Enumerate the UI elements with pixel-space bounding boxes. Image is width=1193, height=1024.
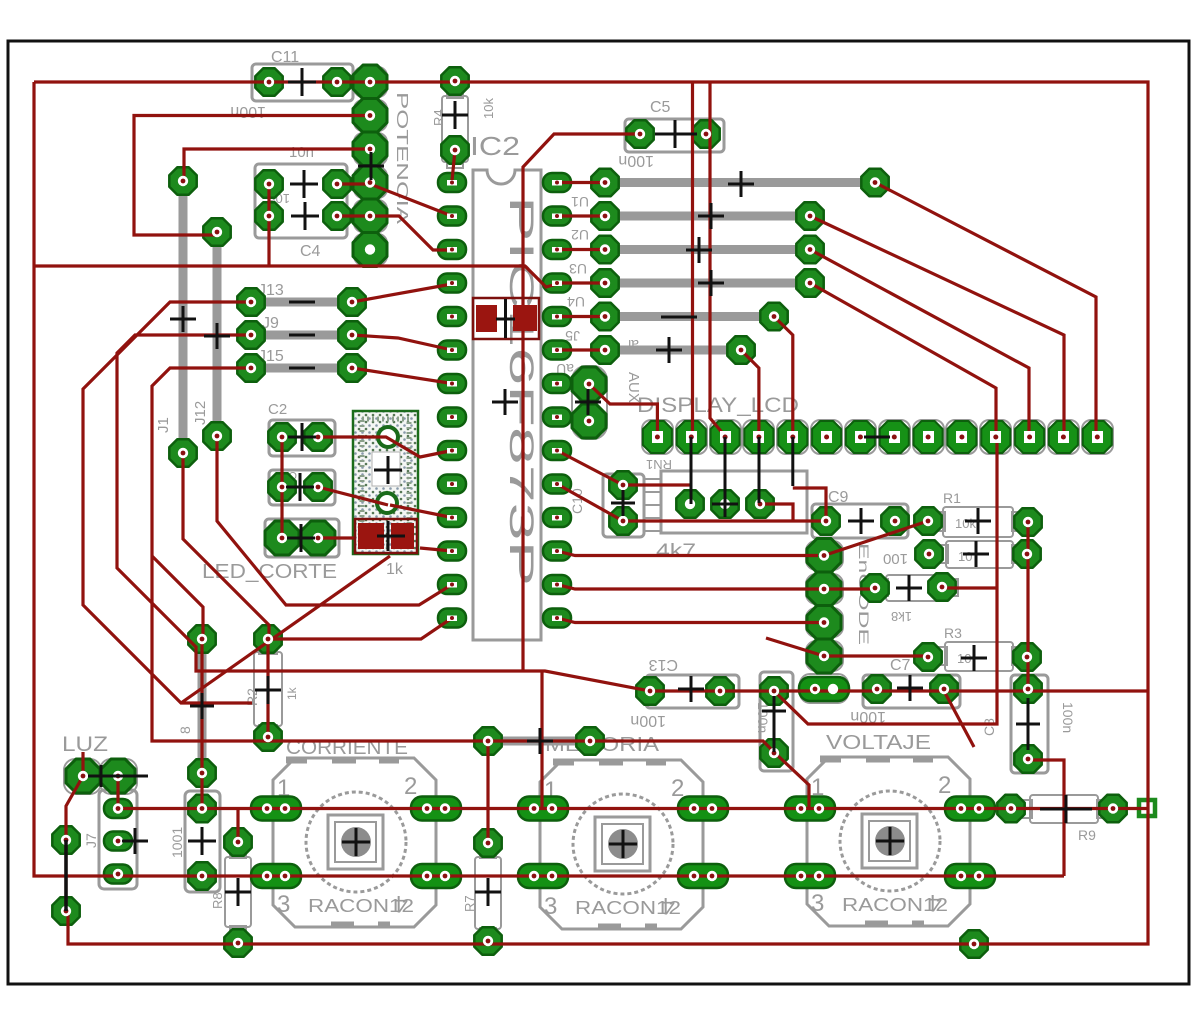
svg-text:U1: U1 <box>571 194 589 210</box>
resistor R5 pads <box>915 540 942 567</box>
svg-text:10n: 10n <box>289 144 314 161</box>
connector J10 outline <box>185 791 220 892</box>
capacitor C5 outline <box>625 119 724 152</box>
resistor R8 outline <box>225 857 251 927</box>
svg-text:U4: U4 <box>567 294 585 310</box>
wire relay coil row <box>118 807 1147 810</box>
wire J9 left bundle to C13 row <box>117 335 1148 691</box>
wire C3 to T1 <box>318 487 388 505</box>
wire bus U4 to LCD pad11b <box>810 283 996 437</box>
resistor R2 outline <box>254 652 282 726</box>
svg-text:10: 10 <box>958 549 972 564</box>
svg-text:C7: C7 <box>890 657 911 674</box>
resistor R2 pads <box>254 625 281 652</box>
capacitor C11 outline <box>252 64 353 101</box>
wire outer loop top/right/bottom <box>34 82 1148 944</box>
J10 origin <box>188 827 216 855</box>
wire branch to J8 <box>152 556 203 639</box>
svg-text:2: 2 <box>404 773 417 800</box>
svg-text:LUZ: LUZ <box>62 733 108 756</box>
bus origin marks <box>728 171 754 197</box>
wire C16 to relay K3 pin1 <box>775 753 809 808</box>
wire bus J5 to LCD pad5 <box>774 317 793 438</box>
svg-text:8: 8 <box>177 726 193 734</box>
resistor R1 pads <box>914 507 941 534</box>
capacitor C2 outline <box>269 420 335 456</box>
wire C2a to POTENCIA <box>337 182 370 185</box>
wire 4k7 pin3 branch <box>760 504 793 521</box>
wire LUZ2 to J7 <box>116 776 119 809</box>
svg-text:R7: R7 <box>462 895 477 912</box>
bus right end pads <box>861 169 888 196</box>
svg-text:1k: 1k <box>285 686 299 700</box>
svg-text:R3: R3 <box>944 625 962 641</box>
svg-text:R8: R8 <box>210 892 225 909</box>
svg-text:J12: J12 <box>192 401 209 425</box>
wire C5 to IC2 inner <box>523 134 640 672</box>
resistor network 4k7 pads <box>676 490 703 517</box>
resistor R9 outline <box>1030 795 1098 823</box>
LCD pad outlines <box>642 420 1113 454</box>
jumper J1 pads <box>169 167 196 194</box>
wire R2 to IC2 pin14 <box>269 618 452 639</box>
svg-text:4k7: 4k7 <box>656 541 696 562</box>
wire C2 to T1 <box>318 437 452 457</box>
IC2 origin crosses <box>496 299 515 338</box>
svg-text:1k8: 1k8 <box>891 609 912 624</box>
connector J7 pads <box>104 799 132 818</box>
svg-text:U3: U3 <box>569 261 587 277</box>
bus bars rows U1-U6 <box>605 183 875 351</box>
svg-text:100n: 100n <box>755 702 771 733</box>
wire J13 right to IC2 pin4 <box>352 284 452 302</box>
connector ENCODER pad outlines <box>800 541 848 703</box>
wire J15 left bundle to R2 row <box>152 368 775 753</box>
SMD pads T1 <box>355 519 417 553</box>
wire LUZ stub <box>81 752 84 776</box>
wire J12 to IC2 pin13 <box>217 436 452 605</box>
AUX origin <box>575 389 601 415</box>
connector LUZ pads <box>66 759 100 793</box>
jumper J9 bar <box>262 331 342 340</box>
svg-text:4: 4 <box>662 892 675 919</box>
svg-text:2: 2 <box>938 772 951 799</box>
black stubs LCD to 4k7 <box>691 437 793 504</box>
wire C4 to IC2 pin3 <box>337 216 452 250</box>
jumper J1 bar <box>179 190 188 445</box>
wire encoder row4 to R3 <box>766 638 928 656</box>
svg-text:100n: 100n <box>1060 702 1076 733</box>
wire POTENCIA pad4 to IC2 pin2 <box>370 184 452 216</box>
connector AUX pads <box>572 367 606 401</box>
wire C4 group left pads <box>267 184 270 266</box>
bus left pads <box>591 169 618 196</box>
T1 crosses <box>374 456 402 484</box>
connector DISPLAY_LCD pads <box>643 421 672 453</box>
svg-text:R9: R9 <box>1078 827 1096 843</box>
wire J9 right to IC2 pin6 <box>352 335 452 350</box>
svg-text:4: 4 <box>395 890 408 917</box>
svg-text:U2: U2 <box>571 227 589 243</box>
square pad right <box>1139 800 1155 816</box>
wire C10 to C9 <box>623 519 826 522</box>
capacitor C7 outline <box>863 675 960 708</box>
svg-text:POTENCIA: POTENCIA <box>393 92 410 225</box>
capacitor C8 outline <box>1011 675 1048 773</box>
LED pads <box>265 521 299 555</box>
jumper J15 bar <box>262 364 342 373</box>
jumper J16 pads <box>474 727 501 754</box>
connector J10 pads <box>188 795 215 822</box>
svg-text:4: 4 <box>929 889 942 916</box>
resistor R9 pads <box>997 795 1024 822</box>
wire LCD pad5 to C9 <box>793 488 826 521</box>
svg-text:C5: C5 <box>650 99 671 116</box>
LED pads outline <box>265 519 339 557</box>
svg-text:al: al <box>628 337 639 353</box>
svg-text:3: 3 <box>811 890 824 917</box>
jumper J13 pads <box>237 288 264 315</box>
svg-text:C4: C4 <box>300 243 321 260</box>
wire C7 diagonal <box>944 691 974 747</box>
capacitor C2 pads <box>268 423 295 450</box>
capacitor C2/C4 group pads <box>255 170 282 197</box>
capacitor C13 pads <box>636 677 663 704</box>
resistor R3 outline <box>945 642 1013 671</box>
resistor R4 outline <box>442 96 468 162</box>
capacitor C10 outline <box>603 474 644 537</box>
pad holes with trace dots <box>264 77 274 87</box>
resistor network 4k7 outline <box>661 471 807 533</box>
jumper J16 bar <box>498 737 580 746</box>
wire IC2 right stubs to bus <box>557 183 605 351</box>
wire POTENCIA pad3 to J1 <box>184 149 370 180</box>
jumper J12 bar <box>213 240 222 428</box>
connector POTENCIA pad outlines <box>354 67 387 265</box>
svg-text:J7: J7 <box>83 833 99 848</box>
wire IC2 pin10 to C10 <box>557 484 623 521</box>
svg-text:100n: 100n <box>630 712 666 729</box>
svg-text:R1: R1 <box>943 490 961 506</box>
wire IC2 pin14R encoder row3 <box>557 618 824 623</box>
connector ENCODER pads <box>807 539 841 573</box>
wire R1 R5 R3 C8 vertical <box>1026 522 1029 689</box>
wire C8 to corner <box>1029 760 1064 876</box>
jumper origin marks <box>289 301 315 304</box>
capacitor C3 outline <box>269 470 335 505</box>
wire IC2 pin12R encoder row1 <box>557 551 818 556</box>
resistor R6 pads <box>861 574 888 601</box>
relay K2 pads <box>518 797 568 821</box>
connector J7 outline <box>99 790 137 889</box>
wire R4 to IC2 pin1 <box>452 150 455 181</box>
wire C10 to 4k7 <box>623 483 690 486</box>
wire bus a6 to LCD pad4 <box>741 350 759 437</box>
svg-text:PIC16F873P: PIC16F873P <box>502 196 540 586</box>
wire relay row to R8 <box>236 809 239 843</box>
svg-text:3: 3 <box>277 891 290 918</box>
wire IC2 inner to relay K2 pin1 <box>540 672 543 808</box>
node pad B <box>960 930 987 957</box>
svg-text:3: 3 <box>544 893 557 920</box>
svg-text:10k: 10k <box>481 98 496 119</box>
wire LUZ to bottom pads <box>66 776 83 911</box>
capacitor C3 pads <box>268 473 295 500</box>
resistor R5 outline <box>946 541 1013 568</box>
wire J16 to R7 <box>486 741 489 843</box>
svg-text:C2: C2 <box>268 401 287 418</box>
resistor R1 outline <box>943 507 1013 537</box>
capacitor C13 outline <box>646 675 739 708</box>
svg-text:DISPLAY_LCD: DISPLAY_LCD <box>637 394 799 417</box>
resistor R4 pads <box>441 67 468 94</box>
wire outer loop left and bottom pad row <box>34 82 1064 876</box>
node link luz pads <box>64 840 68 911</box>
wire bus U3 to LCD pad12 <box>810 250 1029 438</box>
wire AUX to LCD pad1 <box>589 384 657 437</box>
wire T1 to IC2 pin11 <box>390 505 452 518</box>
svg-text:10k: 10k <box>955 516 976 531</box>
svg-text:C9: C9 <box>828 489 849 506</box>
wire LED to 1k <box>318 536 356 539</box>
capacitor C9 pads <box>812 507 839 534</box>
svg-text:C13: C13 <box>649 656 678 673</box>
resistor R3 pads <box>914 643 941 670</box>
J7 origin <box>122 828 148 854</box>
wire J8 chain down <box>200 639 203 809</box>
connector POTENCIA pads <box>353 65 387 99</box>
origin crosses capacitors <box>288 68 316 96</box>
SMD pads IC2 <box>473 298 539 339</box>
capacitor C16 pads <box>760 677 787 704</box>
jumper J8 pads <box>188 625 215 652</box>
wire C16 top to LCD pad11 <box>774 437 997 724</box>
resistor R6 outline <box>886 575 950 601</box>
wire bundle diagonal to 1k <box>181 556 390 703</box>
relay K3 pads <box>785 797 835 821</box>
wire J15 right to IC2 pin7 <box>352 368 452 384</box>
wire GND long row <box>34 266 557 287</box>
jumper J13 bar <box>262 298 342 307</box>
svg-text:1k: 1k <box>386 561 404 578</box>
jumper J15 pads <box>237 354 264 381</box>
capacitor C5 pads <box>626 120 653 147</box>
svg-text:100n: 100n <box>618 152 654 169</box>
transistor T1 outline <box>353 411 418 554</box>
origin crosses resistors <box>442 101 468 129</box>
relay K1 pads <box>251 797 301 821</box>
wire IC2 pin9 to C10 <box>557 451 623 486</box>
wire bus U2 to LCD pad13 <box>810 216 1064 437</box>
capacitor C7 pads <box>863 675 890 702</box>
svg-text:J1: J1 <box>155 417 172 433</box>
LUZ origin <box>88 765 148 787</box>
svg-text:C11: C11 <box>271 49 299 66</box>
svg-text:100: 100 <box>883 550 908 567</box>
capacitor C2/C4 group outline <box>255 164 347 238</box>
wire top to LCD pad3 <box>710 82 725 436</box>
svg-text:VOLTAJE: VOLTAJE <box>826 732 931 754</box>
connector AUX outline <box>572 366 607 439</box>
resistor R7 outline <box>475 857 501 929</box>
wire C9 to R1 <box>824 521 928 556</box>
wire C2 C3 LED vertical <box>280 437 283 538</box>
resistor R8 pads <box>224 828 251 855</box>
capacitor C11 pads <box>255 68 282 95</box>
capacitor C9 outline <box>812 504 908 538</box>
capacitor C10 pads <box>609 471 636 498</box>
relay origin crosses <box>342 828 370 856</box>
wire bus U1 to LCD pad14 <box>875 183 1096 438</box>
capacitor C16 outline <box>760 672 793 771</box>
wire IC2 pin13R encoder row2 <box>557 585 875 590</box>
wire J13 left bundle <box>83 302 252 703</box>
capacitor C8 pads <box>1014 675 1041 702</box>
node pads bottom left <box>52 826 79 853</box>
wire POTENCIA pad2 left <box>134 116 370 236</box>
wire R2 top chain <box>266 639 269 737</box>
C11 origin <box>288 81 316 84</box>
jumper J9 pads <box>237 321 264 348</box>
svg-text:100n: 100n <box>230 103 266 120</box>
svg-text:1001: 1001 <box>169 827 185 858</box>
wire top to LCD pad2 <box>691 82 694 437</box>
IC2 body outline <box>473 170 541 640</box>
jumper J12 pads <box>203 218 230 245</box>
wire R6 to vertical <box>942 586 996 589</box>
IC2 left pads <box>438 173 466 192</box>
wire 1k to IC2 pin12 <box>420 548 452 551</box>
resistor R7 pads <box>474 829 501 856</box>
IC2 right pads <box>543 173 571 192</box>
svg-text:C8: C8 <box>981 718 997 736</box>
svg-text:IC2: IC2 <box>470 131 520 161</box>
wire J1 down to R2 <box>183 453 269 639</box>
POTENCIA origin <box>358 152 384 180</box>
jumper J8 bar <box>198 646 207 767</box>
svg-text:R4: R4 <box>431 109 446 126</box>
